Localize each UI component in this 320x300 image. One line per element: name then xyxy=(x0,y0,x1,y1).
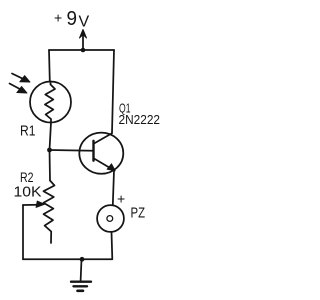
wire: base wire to Q1 xyxy=(50,149,94,152)
power label +9V xyxy=(54,8,90,31)
svg-text:V: V xyxy=(79,14,90,31)
node: supply junction dot xyxy=(81,48,86,53)
node: ground junction dot xyxy=(80,257,85,262)
wire: rail to Q1 collector xyxy=(112,50,114,133)
transistor Q1 xyxy=(79,133,123,174)
wire: top rail xyxy=(49,49,114,51)
potentiometer R2 xyxy=(23,150,55,259)
wire: R1 bottom to junction xyxy=(50,123,52,151)
light arrow 2 xyxy=(10,84,28,94)
supply arrow xyxy=(80,30,87,51)
light arrow 1 xyxy=(12,74,30,83)
svg-text:+: + xyxy=(117,191,125,207)
svg-text:9: 9 xyxy=(67,8,78,30)
svg-text:R1: R1 xyxy=(20,123,36,140)
wire: Q1 emitter to PZ xyxy=(113,171,114,206)
ground xyxy=(71,259,91,291)
node: base junction dot xyxy=(47,148,52,153)
piezo PZ xyxy=(97,205,124,232)
photoresistor R1 xyxy=(30,82,71,123)
svg-text:+: + xyxy=(54,10,62,26)
wire: rail to R1 top xyxy=(48,50,51,82)
svg-text:10K: 10K xyxy=(14,184,42,201)
svg-text:2N2222: 2N2222 xyxy=(119,112,161,127)
svg-text:PZ: PZ xyxy=(131,206,146,222)
wire: PZ bottom to rail xyxy=(23,232,112,259)
